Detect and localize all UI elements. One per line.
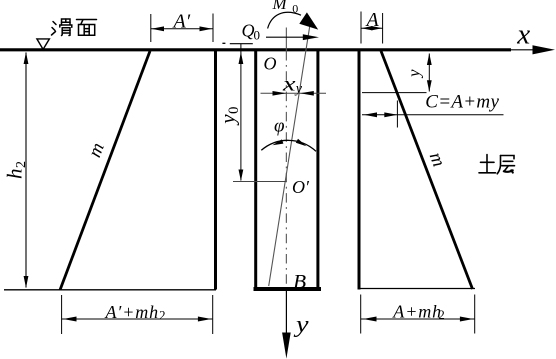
svg-text:0: 0 [254, 28, 261, 43]
svg-text:A+mh: A+mh [392, 301, 442, 321]
svg-text:φ: φ [274, 116, 285, 137]
svg-text:C=A+my: C=A+my [425, 92, 499, 113]
svg-text:O′: O′ [292, 177, 310, 197]
svg-text:2: 2 [159, 309, 165, 323]
svg-text:x: x [516, 19, 530, 51]
svg-text:2: 2 [439, 308, 445, 322]
svg-text:x: x [282, 71, 297, 95]
svg-text:y: y [294, 82, 303, 97]
svg-text:O: O [264, 54, 277, 74]
svg-text:y: y [294, 312, 309, 338]
svg-text:0: 0 [226, 107, 242, 114]
svg-text:0: 0 [292, 1, 298, 15]
svg-text:y: y [404, 69, 423, 79]
svg-text:A′+mh: A′+mh [105, 302, 160, 322]
svg-text:y: y [215, 114, 239, 126]
svg-text:M: M [272, 0, 288, 13]
svg-text:B: B [293, 272, 306, 293]
svg-text:A′: A′ [172, 11, 191, 33]
svg-text:A: A [365, 9, 380, 31]
svg-text:2: 2 [14, 161, 29, 168]
svg-text:h: h [3, 169, 27, 180]
